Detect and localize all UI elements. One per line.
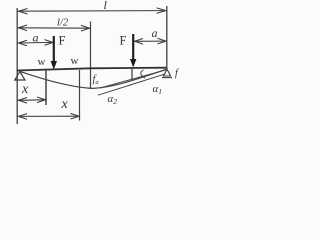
right extension line bbox=[166, 6, 168, 69]
svg-text:F: F bbox=[59, 34, 66, 48]
svg-text:w: w bbox=[71, 55, 79, 67]
svg-text:a: a bbox=[33, 31, 39, 45]
tangent line alpha1 bbox=[100, 70, 167, 88]
tangent line alpha2 bbox=[98, 74, 166, 95]
left support pin bbox=[15, 72, 25, 81]
section ordinate line x2 bbox=[79, 70, 81, 121]
dimension x second bbox=[18, 113, 79, 119]
svg-text:l/2: l/2 bbox=[57, 18, 69, 29]
left extension line bbox=[16, 8, 18, 124]
force F left bbox=[51, 36, 57, 70]
force F right bbox=[130, 34, 136, 67]
svg-text:x: x bbox=[61, 97, 69, 112]
midspan extension line bbox=[90, 22, 92, 89]
svg-text:x: x bbox=[21, 82, 29, 97]
ordinate tick at right load bbox=[131, 69, 133, 81]
beam bbox=[17, 68, 167, 71]
svg-text:a: a bbox=[152, 26, 158, 40]
dimension a right bbox=[134, 38, 166, 44]
dimension x first bbox=[18, 97, 46, 103]
svg-text:F: F bbox=[120, 34, 127, 48]
section ordinate line x1 bbox=[45, 70, 47, 105]
svg-text:w: w bbox=[38, 56, 46, 68]
deflection curve bbox=[20, 69, 167, 88]
dimension a left bbox=[18, 40, 53, 46]
paper background bbox=[0, 0, 185, 135]
dimension l line bbox=[18, 8, 166, 14]
alpha1 angle arc bbox=[141, 70, 145, 78]
right support roller bbox=[162, 69, 172, 77]
dimension l/2 line bbox=[18, 25, 90, 31]
